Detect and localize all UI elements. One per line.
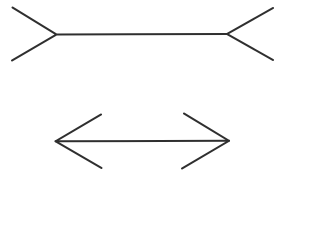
- top shaft line: [57, 33, 228, 36]
- bottom shaft line: [56, 140, 230, 143]
- Muller-Lyer illusion figure: [0, 0, 280, 175]
- top right upper fin: [227, 8, 273, 34]
- bottom left arrowhead lower fin: [56, 141, 102, 168]
- bottom right arrowhead lower fin: [182, 141, 229, 169]
- bottom right arrowhead upper fin: [184, 114, 229, 141]
- top left upper fin: [13, 8, 57, 35]
- top right lower fin: [227, 34, 273, 60]
- bottom left arrowhead upper fin: [56, 115, 102, 142]
- top left lower fin: [12, 35, 57, 61]
